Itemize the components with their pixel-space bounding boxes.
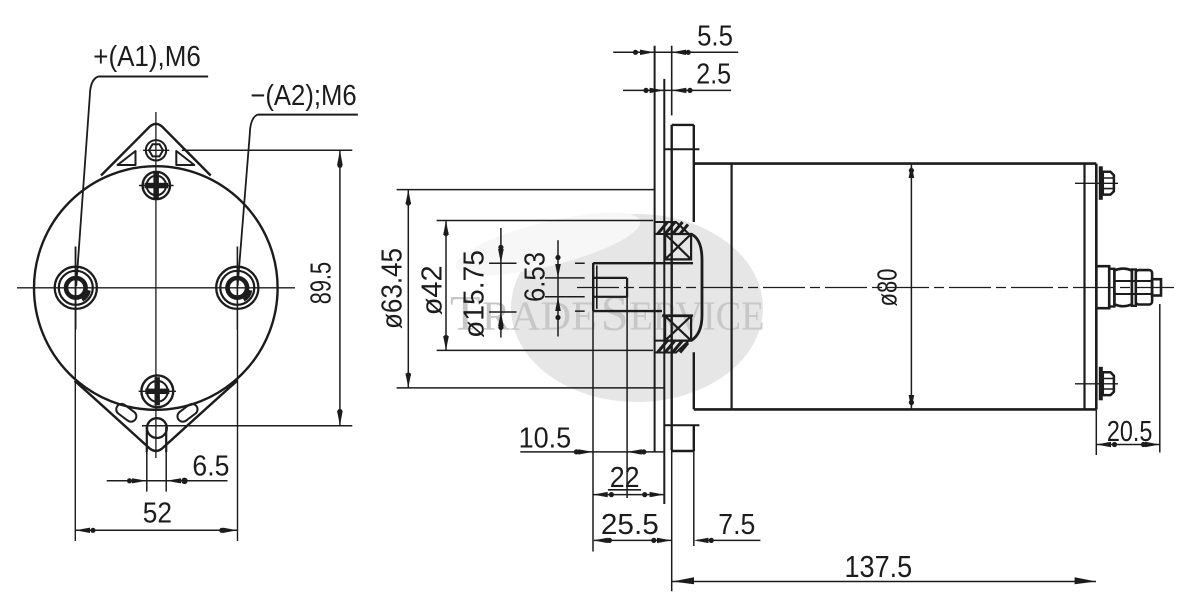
- svg-text:+(A1),M6: +(A1),M6: [93, 41, 201, 73]
- svg-text:ø15.75: ø15.75: [459, 250, 491, 338]
- svg-text:ø63.45: ø63.45: [377, 248, 409, 329]
- svg-text:5.5: 5.5: [697, 20, 733, 52]
- svg-text:6.5: 6.5: [192, 451, 229, 483]
- svg-text:2.5: 2.5: [696, 59, 731, 91]
- svg-text:ø80: ø80: [872, 269, 903, 307]
- svg-text:25.5: 25.5: [601, 509, 659, 541]
- svg-text:7.5: 7.5: [718, 509, 755, 541]
- svg-text:137.5: 137.5: [845, 549, 913, 584]
- svg-text:52: 52: [143, 498, 172, 530]
- svg-text:ERVICE: ERVICE: [630, 293, 765, 339]
- svg-text:10.5: 10.5: [519, 423, 572, 455]
- svg-text:6.53: 6.53: [520, 252, 552, 302]
- svg-text:ø42: ø42: [417, 265, 449, 315]
- svg-text:S: S: [601, 285, 629, 341]
- svg-text:−(A2);M6: −(A2);M6: [250, 80, 356, 112]
- svg-text:89.5: 89.5: [306, 262, 338, 304]
- svg-text:20.5: 20.5: [1107, 416, 1153, 448]
